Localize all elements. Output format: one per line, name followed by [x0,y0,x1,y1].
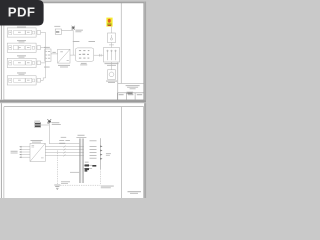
svg-text:PDF: PDF [8,5,36,20]
